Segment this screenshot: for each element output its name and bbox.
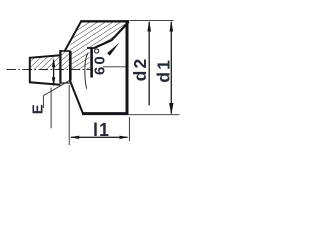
svg-text:E: E [29,104,46,114]
step face (collar front face) [59,50,61,84]
60 deg arrow head [107,43,119,56]
centerline [7,69,92,71]
dimension line l1 [70,136,129,139]
body right edge [126,20,129,115]
taper shank outline (section) [30,55,61,85]
cavity bottom face [90,48,93,78]
internal cone face (60 deg) [95,22,129,48]
svg-text:d1: d1 [154,58,174,83]
collar top edge [60,50,70,52]
section hatching (cone wedge) [70,21,128,69]
E oblique extension line [43,80,69,95]
body bottom edge [82,112,128,115]
degree symbol [95,49,99,53]
dimension line d2 [147,20,151,105]
section hatching (upper half of part) [30,51,70,70]
groove face (body start) [69,51,72,81]
bottom extension line (d1) [129,114,180,116]
l1 left extension line [68,85,70,145]
top extension line (d1) [130,19,174,21]
dimension line d1 [169,20,173,114]
body back cone silhouette (lower) [70,80,83,113]
body back edge (upper, section) [65,21,82,51]
60 deg arc with arrow [85,53,88,89]
svg-text:l1: l1 [93,120,110,140]
E extension line short [42,96,44,108]
svg-text:60: 60 [91,54,108,75]
dimension E arrow [52,58,55,87]
svg-text:d2: d2 [130,57,150,82]
cavity face top ledge [87,47,95,49]
l1 right extension line [128,117,130,141]
E extension line (right of label) [50,88,52,129]
cavity centerline segment [103,66,127,68]
body top edge [80,20,129,22]
collar bottom edge [60,82,69,84]
